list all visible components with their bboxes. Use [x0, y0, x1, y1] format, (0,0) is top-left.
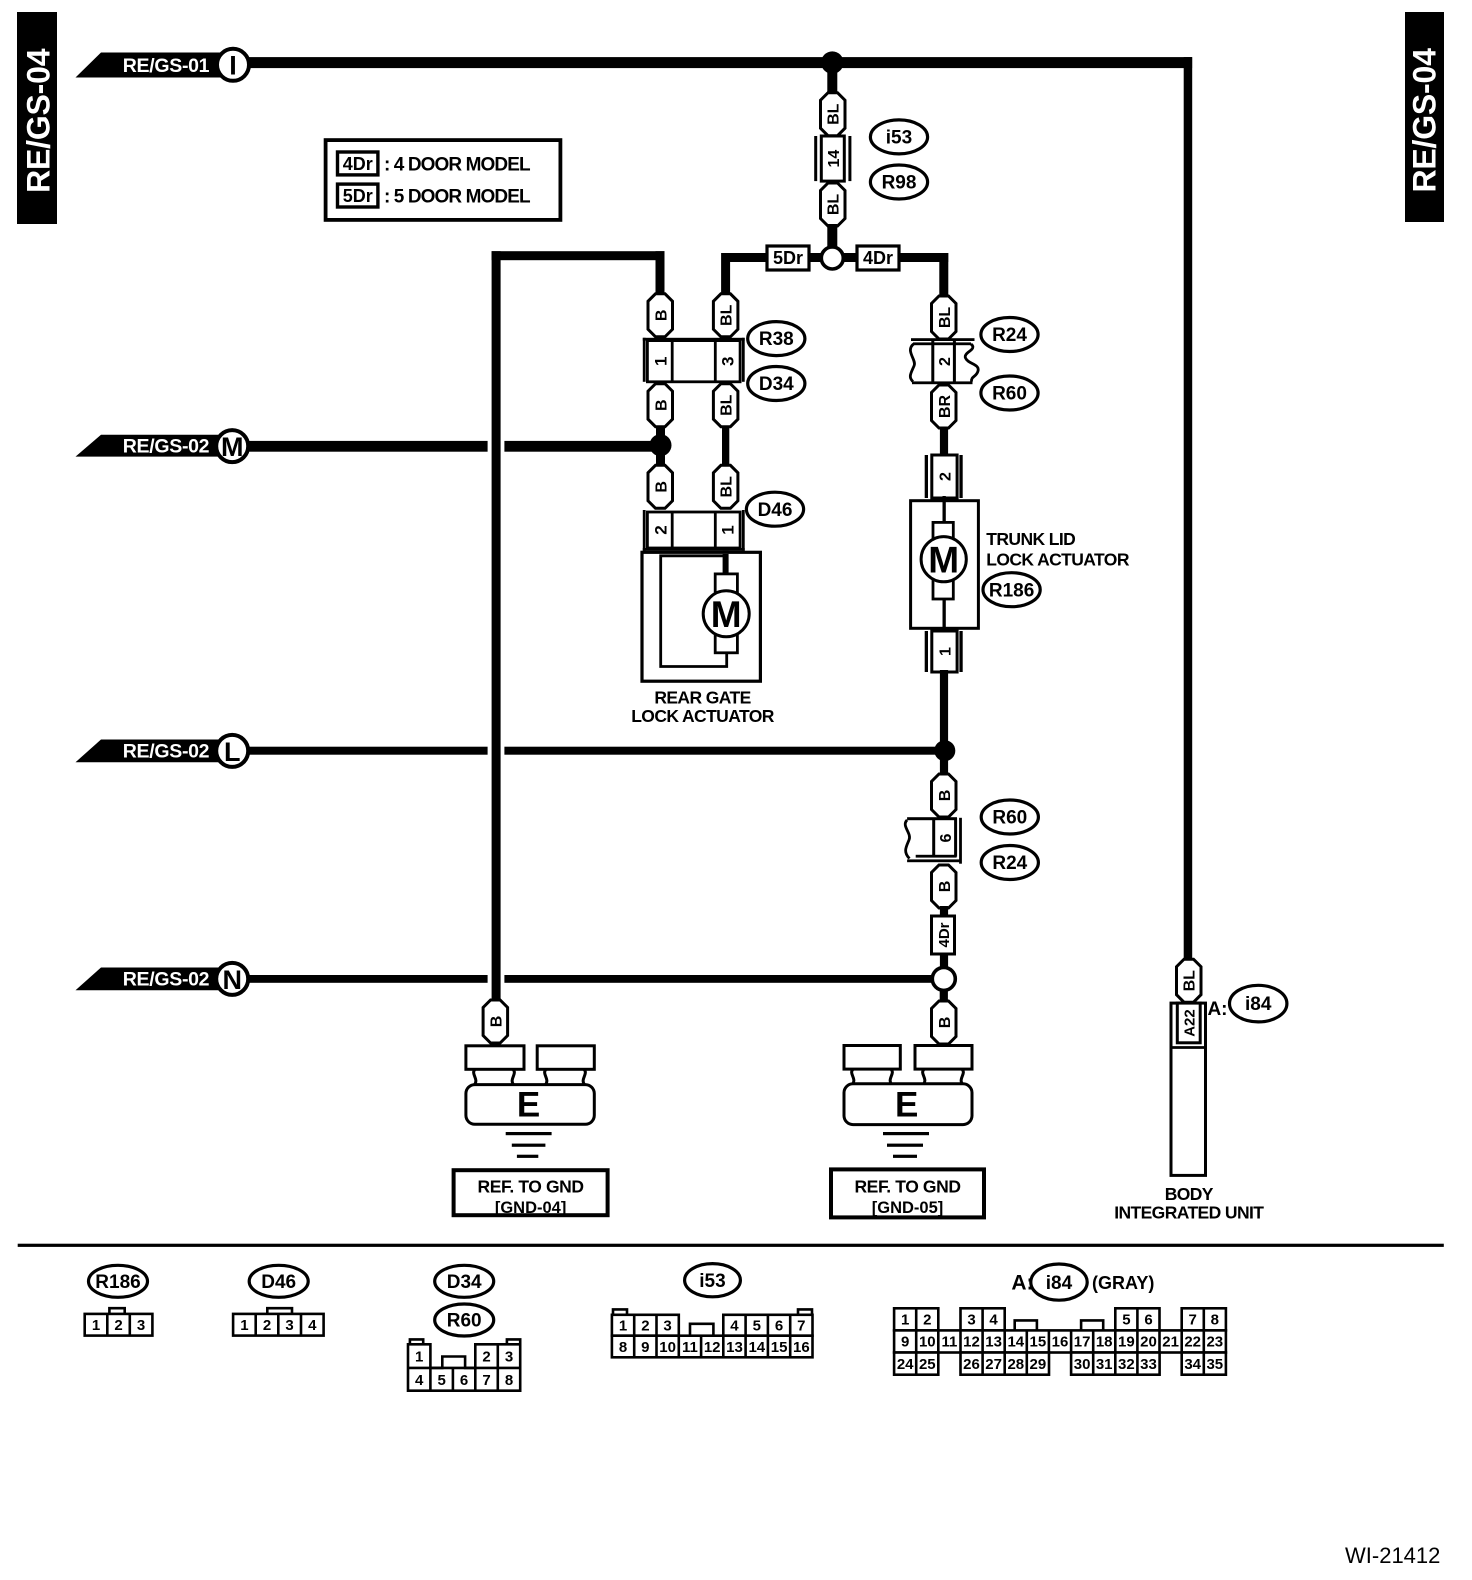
svg-text:35: 35 [1206, 1356, 1223, 1373]
svg-text:[GND-05]: [GND-05] [872, 1199, 944, 1217]
svg-text:i84: i84 [1245, 994, 1272, 1015]
svg-text:25: 25 [919, 1356, 936, 1373]
svg-text:i53: i53 [699, 1271, 725, 1292]
label D34 (table) [435, 1265, 494, 1297]
svg-text:R98: R98 [882, 173, 917, 194]
svg-text:21: 21 [1162, 1334, 1179, 1351]
label R98 [870, 165, 927, 199]
motor M circle (rear gate) [703, 591, 749, 637]
svg-text:WI-21412: WI-21412 [1345, 1543, 1440, 1568]
svg-text:7: 7 [482, 1372, 490, 1389]
svg-text:5: 5 [438, 1372, 446, 1389]
svg-text:16: 16 [793, 1339, 810, 1356]
wire pin1 to bus L [940, 670, 948, 752]
connector pin 1 (trunk bottom) [925, 631, 963, 672]
wire BR to pin2 [940, 427, 948, 457]
label REF. TO GND [GND-04] [454, 1170, 608, 1217]
svg-text:5: 5 [1122, 1312, 1130, 1329]
rear gate actuator box [642, 552, 760, 681]
wire corner to trunk BL column (4Dr) [939, 253, 948, 299]
motor armature rect (trunk) [933, 522, 953, 599]
svg-text:I: I [229, 51, 237, 81]
label R186 [983, 573, 1040, 607]
svg-text:INTEGRATED UNIT: INTEGRATED UNIT [1114, 1203, 1264, 1223]
svg-text:LOCK ACTUATOR: LOCK ACTUATOR [986, 550, 1130, 570]
ground E block (GND-05) [844, 1046, 972, 1125]
node M circle [216, 430, 248, 462]
wire stub bus I to BL terminal [827, 62, 837, 95]
svg-text:[GND-04]: [GND-04] [495, 1199, 567, 1217]
label REAR GATE LOCK ACTUATOR [631, 688, 775, 727]
svg-text:RE/GS-04: RE/GS-04 [1407, 48, 1443, 193]
svg-text:22: 22 [1184, 1334, 1201, 1351]
svg-text:5: 5 [753, 1318, 761, 1335]
svg-text:14: 14 [1007, 1334, 1024, 1351]
label R24 (lower) [981, 846, 1038, 880]
svg-text:i84: i84 [1046, 1273, 1073, 1294]
svg-text:BL: BL [1182, 970, 1199, 992]
svg-text:1: 1 [619, 1318, 627, 1335]
svg-text:i53: i53 [886, 128, 912, 149]
label A: i84 (GRAY) (table) [1011, 1264, 1154, 1300]
svg-text:RE/GS-02: RE/GS-02 [123, 969, 210, 991]
svg-text:D34: D34 [759, 374, 794, 395]
svg-text:REAR GATE: REAR GATE [654, 688, 750, 708]
wire B column through dot [656, 427, 665, 468]
svg-text:RE/GS-01: RE/GS-01 [123, 55, 210, 77]
label R24 [981, 318, 1038, 352]
wire corner to BL column (5Dr) [721, 253, 730, 297]
svg-text:2: 2 [937, 472, 954, 481]
svg-text:1: 1 [415, 1349, 423, 1366]
svg-text:R60: R60 [992, 384, 1027, 405]
terminal B (below splice 6) [932, 865, 957, 908]
svg-text:9: 9 [641, 1339, 649, 1356]
svg-text:27: 27 [985, 1356, 1002, 1373]
svg-text:1: 1 [937, 647, 954, 656]
svg-text:33: 33 [1140, 1356, 1157, 1373]
svg-text:D46: D46 [758, 500, 793, 521]
svg-text:3: 3 [967, 1312, 975, 1329]
terminal BL (BIU A22) [1177, 959, 1202, 1002]
connector D46 block [643, 510, 745, 551]
wire corner down to B terminal [656, 251, 665, 296]
svg-text:29: 29 [1030, 1356, 1047, 1373]
svg-text:8: 8 [505, 1372, 513, 1389]
svg-text:34: 34 [1184, 1356, 1201, 1373]
svg-text:11: 11 [682, 1339, 698, 1356]
tag 5Dr [767, 246, 809, 270]
wire horizontal to rear-gate B column [492, 251, 665, 260]
label R186 (table) [89, 1265, 148, 1297]
terminal B (GND-04) [483, 1000, 508, 1043]
svg-text:5Dr: 5Dr [343, 186, 373, 206]
svg-text:REF. TO GND: REF. TO GND [854, 1177, 960, 1197]
label R38 [748, 322, 805, 356]
svg-text:2: 2 [937, 357, 954, 366]
svg-text:REF. TO GND: REF. TO GND [478, 1177, 584, 1197]
svg-text:(GRAY): (GRAY) [1092, 1273, 1154, 1293]
svg-text:2: 2 [923, 1312, 931, 1329]
connector table i53 [612, 1309, 813, 1357]
svg-text:R60: R60 [992, 808, 1027, 829]
svg-text:4: 4 [989, 1312, 998, 1329]
svg-text:B: B [653, 310, 670, 322]
svg-text:16: 16 [1052, 1334, 1069, 1351]
label D46 [746, 492, 803, 526]
svg-text:17: 17 [1074, 1334, 1091, 1351]
trunk lid actuator box [911, 501, 979, 629]
junction dot on bus I [821, 51, 843, 73]
svg-text:20: 20 [1140, 1334, 1157, 1351]
wire bus N RE/GS-02 [246, 975, 940, 983]
tag 4Dr (vertical) [932, 916, 955, 954]
terminal B (D34 pin1 top) [648, 294, 673, 337]
splice connector pin 6 (R60/R24) [905, 817, 960, 864]
motor M circle (trunk) [921, 537, 966, 582]
svg-text:2: 2 [652, 525, 671, 534]
svg-text:30: 30 [1074, 1356, 1091, 1373]
label BODY INTEGRATED UNIT [1114, 1184, 1264, 1223]
wire pin2 into trunk actuator [943, 496, 946, 524]
page banner right RE/GS-04 [1405, 12, 1444, 222]
connector pin 2 (trunk top) [925, 455, 963, 498]
svg-text:M: M [711, 594, 742, 635]
svg-text:M: M [221, 432, 244, 462]
svg-text:11: 11 [941, 1334, 957, 1351]
wire 5Dr branch [726, 253, 822, 262]
svg-text:A:: A: [1207, 999, 1227, 1020]
svg-text:BL: BL [826, 194, 843, 216]
svg-text:3: 3 [285, 1317, 293, 1334]
svg-text:1: 1 [652, 356, 671, 365]
ground E block (GND-04) [466, 1046, 594, 1125]
terminal BL (i53 side) [821, 93, 846, 136]
svg-text:3: 3 [137, 1317, 145, 1334]
svg-text:R38: R38 [759, 329, 794, 350]
wire 4Dr tag to node N [940, 954, 948, 969]
label i53 (table) [685, 1264, 741, 1297]
svg-text:8: 8 [1211, 1312, 1219, 1329]
wire pin2 to motor (inside trunk box) [943, 502, 946, 524]
svg-text:B: B [937, 881, 954, 893]
terminal B (GND-05) [932, 1001, 957, 1044]
svg-text:D46: D46 [261, 1272, 296, 1293]
svg-text:2: 2 [641, 1318, 649, 1335]
svg-text:14: 14 [748, 1339, 765, 1356]
svg-text:BL: BL [719, 304, 736, 326]
svg-text:7: 7 [1189, 1312, 1197, 1329]
label R60 (lower) [981, 800, 1038, 834]
terminal B (below D34) [648, 384, 673, 427]
flag RE/GS-02 M [76, 435, 233, 458]
svg-text:6: 6 [938, 833, 955, 842]
svg-text:L: L [224, 737, 241, 767]
label REF. TO GND [GND-05] [831, 1169, 984, 1217]
connector D34 block [643, 338, 745, 382]
svg-text:5Dr: 5Dr [773, 248, 803, 268]
svg-text:R186: R186 [989, 580, 1034, 601]
svg-text:26: 26 [963, 1356, 980, 1373]
wire stub BL to 5Dr/4Dr node [827, 224, 837, 249]
svg-text:4: 4 [415, 1372, 424, 1389]
label R60 (table) [435, 1304, 494, 1336]
svg-text:6: 6 [460, 1372, 468, 1389]
flag RE/GS-02 L [76, 740, 233, 763]
svg-text:9: 9 [901, 1334, 909, 1351]
flag RE/GS-02 N [76, 968, 233, 991]
svg-text:13: 13 [985, 1334, 1002, 1351]
node N circle [216, 963, 248, 995]
svg-text:2: 2 [114, 1317, 122, 1334]
svg-text:BL: BL [719, 476, 736, 498]
terminal B (above splice 6) [932, 774, 957, 817]
svg-text:RE/GS-02: RE/GS-02 [123, 435, 210, 457]
svg-text:18: 18 [1096, 1334, 1113, 1351]
svg-text:12: 12 [963, 1334, 980, 1351]
svg-text:: 4 DOOR MODEL: : 4 DOOR MODEL [384, 155, 531, 176]
separator line [18, 1244, 1444, 1247]
terminal BL (D46 pin1) [713, 465, 738, 508]
svg-text:R186: R186 [95, 1272, 140, 1293]
svg-text:B: B [937, 790, 954, 802]
terminal BL (below 14) [821, 183, 846, 226]
body integrated unit box [1171, 1003, 1206, 1175]
svg-text:B: B [488, 1016, 505, 1028]
svg-text:4Dr: 4Dr [863, 248, 893, 268]
svg-text:1: 1 [240, 1317, 248, 1334]
flag RE/GS-01 [76, 53, 233, 78]
svg-text:R60: R60 [447, 1311, 482, 1332]
svg-text:31: 31 [1096, 1356, 1113, 1373]
tag 4Dr [857, 246, 899, 270]
svg-text:E: E [517, 1086, 540, 1125]
svg-text:3: 3 [663, 1318, 671, 1335]
connector table D46 [233, 1308, 324, 1335]
wire bus I horizontal RE/GS-01 [246, 57, 1192, 68]
label D46 (table) [249, 1265, 308, 1297]
terminal BR (trunk) [932, 385, 957, 428]
svg-text:LOCK ACTUATOR: LOCK ACTUATOR [631, 706, 775, 726]
svg-text:E: E [895, 1085, 918, 1124]
terminal B (D46 pin2) [648, 465, 673, 508]
svg-text:R24: R24 [992, 325, 1027, 346]
svg-text:7: 7 [797, 1318, 805, 1335]
wire B to 4Dr tag [940, 906, 948, 918]
node I circle [217, 49, 249, 81]
svg-text:24: 24 [897, 1356, 914, 1373]
svg-text:23: 23 [1206, 1334, 1223, 1351]
svg-text:1: 1 [719, 525, 738, 534]
label D34 [748, 367, 805, 401]
junction dot on bus L [934, 740, 955, 761]
svg-text:N: N [222, 965, 242, 995]
wire bus L to B terminal [940, 750, 948, 776]
wire motor to pin1 (inside trunk box) [943, 598, 946, 630]
svg-text:B: B [653, 481, 670, 493]
svg-text:8: 8 [619, 1339, 627, 1356]
junction open circle on bus N [932, 967, 955, 990]
connector pin A22 [1177, 1003, 1200, 1043]
svg-text:1: 1 [92, 1317, 100, 1334]
svg-text:6: 6 [1144, 1312, 1152, 1329]
svg-text:D34: D34 [447, 1272, 482, 1293]
svg-text:M: M [928, 539, 959, 580]
svg-text:A:: A: [1011, 1272, 1033, 1295]
svg-text:3: 3 [719, 356, 738, 365]
svg-text:RE/GS-04: RE/GS-04 [21, 48, 57, 193]
label A: i84 [1207, 985, 1286, 1022]
svg-text:4Dr: 4Dr [343, 154, 373, 174]
connector pin 14 (i53/R98) [814, 136, 851, 181]
ground hatch (GND-05) [883, 1132, 929, 1158]
wire node N to B terminal (GND-05) [940, 990, 948, 1003]
svg-text:4Dr: 4Dr [936, 922, 953, 947]
motor armature rect (rear gate) [715, 574, 737, 653]
label TRUNK LID LOCK ACTUATOR [986, 529, 1130, 570]
terminal BL (D34 pin3 top) [713, 294, 738, 337]
connector table R186 [85, 1308, 153, 1335]
svg-text:6: 6 [775, 1318, 783, 1335]
wire long vertical to GND-04 (crossing gaps) [488, 251, 505, 1003]
wire D46 pin1 into actuator [723, 551, 729, 575]
motor loop wire (rear gate) [661, 556, 727, 667]
wire 4Dr branch [843, 253, 948, 262]
svg-text:13: 13 [726, 1339, 743, 1356]
svg-text:: 5 DOOR MODEL: : 5 DOOR MODEL [384, 187, 531, 208]
svg-text:10: 10 [659, 1339, 676, 1356]
svg-text:32: 32 [1118, 1356, 1135, 1373]
splice connector pin 2 (R24/R60) [910, 338, 978, 384]
svg-text:BL: BL [826, 103, 843, 125]
node L circle [216, 735, 248, 767]
svg-text:3: 3 [505, 1349, 513, 1366]
svg-text:19: 19 [1118, 1334, 1135, 1351]
svg-text:12: 12 [704, 1339, 721, 1356]
svg-text:15: 15 [771, 1339, 788, 1356]
svg-text:4: 4 [730, 1318, 739, 1335]
svg-text:RE/GS-02: RE/GS-02 [123, 741, 210, 763]
svg-text:2: 2 [263, 1317, 271, 1334]
svg-text:1: 1 [901, 1312, 909, 1329]
ground hatch (GND-04) [506, 1132, 552, 1158]
wire right vertical from bus I to BIU [1184, 57, 1193, 962]
wire D46 pin1 to motor (inside box) [723, 554, 729, 575]
svg-text:B: B [937, 1017, 954, 1029]
svg-text:10: 10 [919, 1334, 936, 1351]
connector table i84 [894, 1308, 1226, 1374]
terminal BL (trunk, above splice) [932, 296, 957, 339]
svg-text:28: 28 [1007, 1356, 1024, 1373]
svg-text:BODY: BODY [1165, 1184, 1214, 1204]
svg-text:B: B [653, 399, 670, 411]
wire bus L RE/GS-02 [246, 747, 945, 755]
svg-text:BL: BL [937, 307, 954, 329]
page banner left RE/GS-04 [17, 12, 57, 224]
terminal BL (below D34) [713, 384, 738, 427]
svg-text:14: 14 [826, 150, 843, 168]
svg-text:2: 2 [482, 1349, 490, 1366]
wire bus M RE/GS-02 [246, 441, 661, 452]
svg-text:BR: BR [937, 395, 954, 419]
svg-text:R24: R24 [992, 853, 1027, 874]
label i53 [870, 120, 927, 154]
wire BL column between terminals [722, 426, 729, 468]
connector table D34/R60 [408, 1339, 520, 1390]
svg-text:TRUNK LID: TRUNK LID [986, 529, 1075, 549]
svg-text:4: 4 [308, 1317, 317, 1334]
label R60 [981, 376, 1038, 410]
junction dot on bus M [650, 434, 672, 456]
svg-text:BL: BL [719, 394, 736, 416]
junction open circle 5Dr/4Dr [821, 247, 843, 269]
legend box 4Dr/5Dr door models [326, 140, 561, 220]
svg-text:15: 15 [1030, 1334, 1047, 1351]
svg-text:A22: A22 [1182, 1009, 1199, 1037]
